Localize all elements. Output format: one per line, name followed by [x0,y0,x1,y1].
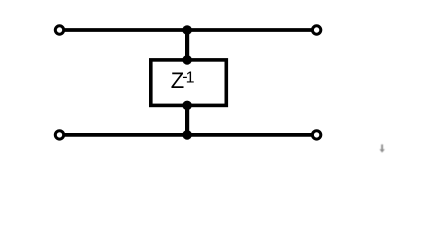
terminal bottom-left [55,131,63,139]
wire top rail [60,28,317,32]
delay block Z^-1 [151,60,227,106]
node junction bottom rail [182,130,192,140]
terminal bottom-right [312,131,320,139]
node junction box top [182,55,192,65]
node junction box bottom [182,101,192,111]
terminal top-right [312,26,320,34]
svg-text:1: 1 [186,69,195,86]
terminal top-left [55,26,63,34]
wire bottom rail [60,133,317,137]
node junction top rail [182,25,192,35]
wire vertical branch [185,30,189,135]
